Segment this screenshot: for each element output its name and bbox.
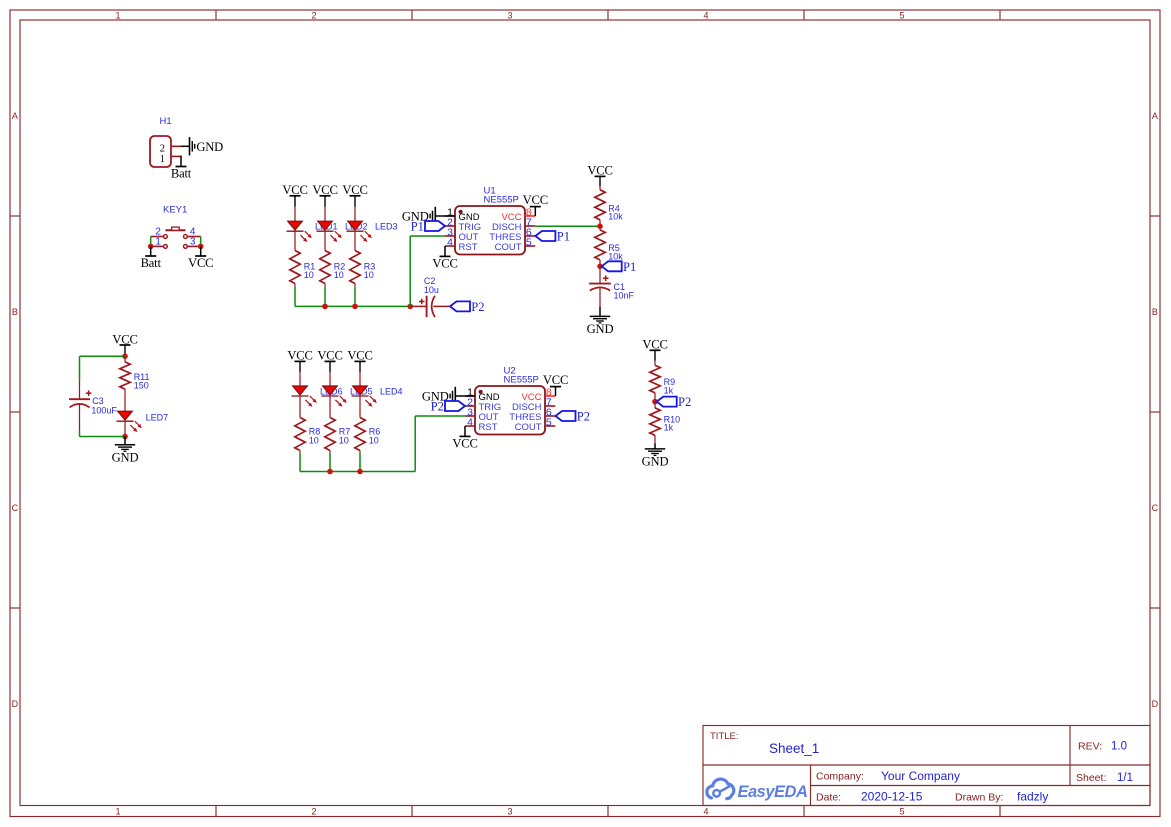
- net label VCC at KEY1: [200, 246, 202, 256]
- svg-text:KEY1: KEY1: [163, 205, 187, 216]
- svg-text:1.0: 1.0: [1111, 741, 1127, 753]
- resistor R2 10: [320, 251, 330, 284]
- ground GND at U1 pin1: [435, 215, 455, 217]
- pin 8 (VCC) of U2: [545, 395, 555, 397]
- wire U1 OUT (pin3): [410, 235, 445, 237]
- svg-text:VCC: VCC: [543, 373, 568, 387]
- wire KEY1 left pins: [150, 237, 152, 247]
- wire VCC to LED3: [354, 207, 356, 221]
- wire R1 to bus: [294, 287, 296, 307]
- wire LED6 to R8: [299, 396, 301, 418]
- pin 7 (DISCH) of U2: [545, 405, 555, 407]
- svg-text:Company:: Company:: [816, 771, 864, 783]
- wire bottom bus group1: [295, 305, 410, 307]
- resistor R11 150: [124, 356, 126, 362]
- svg-text:1: 1: [115, 10, 120, 20]
- pin 4 (RST) of U1: [445, 245, 455, 247]
- port P1 at R5/C1: [602, 261, 622, 271]
- wire OUT down to bus: [409, 236, 411, 306]
- svg-text:3: 3: [507, 10, 512, 20]
- wire R6 to bus: [359, 453, 361, 472]
- resistor R10 1k: [654, 402, 656, 408]
- port P2 at U2 pin6 (THRES): [556, 411, 576, 421]
- svg-text:2020-12-15: 2020-12-15: [861, 790, 923, 804]
- svg-text:10u: 10u: [424, 285, 439, 295]
- pin 1 (GND) of U1: [445, 215, 455, 217]
- svg-text:10nF: 10nF: [614, 291, 635, 301]
- svg-text:TITLE:: TITLE:: [710, 731, 739, 742]
- svg-text:D: D: [1152, 699, 1159, 709]
- svg-text:P2: P2: [431, 400, 444, 414]
- svg-text:Your Company: Your Company: [881, 769, 960, 783]
- junction R4/R5/DISCH: [597, 223, 603, 229]
- svg-text:1k: 1k: [664, 385, 674, 395]
- junction bus/C2/OUT: [407, 304, 413, 310]
- wire VCC junction to C3 branch: [80, 355, 126, 357]
- pin 5 (COUT) of U1: [525, 245, 535, 247]
- svg-text:5: 5: [526, 236, 532, 248]
- junction R7/bus: [327, 469, 333, 475]
- LED LED1: [288, 221, 303, 230]
- wire VCC to LED2: [324, 207, 326, 221]
- svg-text:REV:: REV:: [1078, 741, 1102, 753]
- net label Batt at H1 pin1: [176, 166, 187, 168]
- svg-text:D: D: [12, 699, 19, 709]
- svg-text:A: A: [1152, 111, 1158, 121]
- svg-text:VCC: VCC: [432, 257, 457, 271]
- wire bottom bus group2: [300, 471, 415, 473]
- svg-text:RST: RST: [459, 242, 478, 253]
- ground GND at U2 pin1: [455, 395, 475, 397]
- svg-text:10k: 10k: [608, 212, 623, 222]
- pin 1 (GND) of U2: [465, 395, 475, 397]
- svg-text:A: A: [12, 111, 18, 121]
- svg-text:1/1: 1/1: [1117, 772, 1133, 784]
- svg-text:C: C: [12, 503, 19, 513]
- wire LED3 to R3: [354, 231, 356, 250]
- svg-text:2: 2: [311, 10, 316, 20]
- svg-text:10: 10: [309, 435, 319, 445]
- LED LED5: [323, 386, 338, 395]
- wire KEY1 right pins: [200, 237, 202, 247]
- svg-text:C: C: [1152, 503, 1159, 513]
- power flag VCC at U1 pin4 (RST): [444, 246, 446, 256]
- ground GND below LED7: [124, 437, 126, 445]
- net label Batt at KEY1: [150, 246, 152, 256]
- pin 6 (THRES) of U1: [525, 235, 535, 237]
- junction R6/bus: [357, 469, 363, 475]
- title block: [703, 726, 1150, 806]
- wire R7 to bus: [329, 453, 331, 472]
- svg-text:NE555P: NE555P: [504, 375, 539, 386]
- capacitor C1 10nF: [599, 266, 601, 283]
- resistor R1 10: [290, 251, 300, 284]
- svg-text:1: 1: [115, 807, 120, 817]
- svg-text:P1: P1: [557, 230, 570, 244]
- svg-text:3: 3: [507, 807, 512, 817]
- pin 3 (OUT) of U1: [445, 235, 455, 237]
- wire R2 to bus: [324, 287, 326, 307]
- svg-text:LED4: LED4: [380, 387, 403, 397]
- wire LED4 to R6: [359, 396, 361, 418]
- wire R8 to bus: [299, 453, 301, 472]
- wire bus up to U2 OUT: [414, 416, 416, 472]
- svg-text:GND: GND: [642, 455, 669, 469]
- svg-text:Sheet_1: Sheet_1: [769, 741, 819, 756]
- svg-text:2: 2: [311, 807, 316, 817]
- svg-text:P1: P1: [623, 260, 636, 274]
- LED LED6: [293, 386, 308, 395]
- wire LED5 to R7: [329, 396, 331, 418]
- port P1 at U1 pin2 (TRIG): [425, 221, 445, 231]
- junction R5/C1/P1: [597, 264, 603, 270]
- svg-text:P1: P1: [411, 220, 424, 234]
- svg-text:3: 3: [190, 237, 196, 248]
- svg-text:P2: P2: [577, 410, 590, 424]
- svg-text:LED7: LED7: [146, 412, 169, 422]
- svg-text:4: 4: [447, 236, 453, 248]
- pin 8 (VCC) of U1: [525, 215, 535, 217]
- resistor R4 10k: [599, 186, 601, 190]
- svg-text:NE555P: NE555P: [484, 195, 519, 206]
- junction at KEY1 pin3: [198, 244, 204, 250]
- resistor R5 10k: [599, 226, 601, 230]
- LED LED7: [124, 393, 126, 411]
- ground GND below C1: [599, 307, 601, 316]
- resistor R7 10: [325, 418, 335, 451]
- LED LED3: [348, 221, 363, 230]
- svg-text:GND: GND: [112, 450, 139, 464]
- wire U1 DISCH (pin7) to R4/R5: [535, 225, 600, 227]
- junction LED7/C3/GND: [122, 434, 128, 440]
- svg-text:Batt: Batt: [171, 167, 192, 181]
- svg-text:P2: P2: [678, 395, 691, 409]
- wire R3 to bus: [354, 287, 356, 307]
- resistor R9 1k: [654, 361, 656, 366]
- svg-text:VCC: VCC: [188, 256, 213, 270]
- wire H1 pin1 to Batt flag: [171, 155, 181, 157]
- junction VCC/R11/C3: [122, 353, 128, 359]
- svg-text:10: 10: [304, 270, 314, 280]
- wire VCC to LED4: [359, 372, 361, 386]
- svg-text:Date:: Date:: [816, 792, 841, 804]
- wire LED2 to R2: [324, 231, 326, 250]
- EasyEDA logo: [707, 779, 734, 799]
- svg-text:5: 5: [899, 807, 904, 817]
- svg-text:100uF: 100uF: [91, 405, 117, 415]
- pin 2 (TRIG) of U1: [445, 225, 455, 227]
- pin 4 (RST) of U2: [465, 425, 475, 427]
- port P2 at C2: [450, 301, 470, 311]
- svg-text:10k: 10k: [608, 251, 623, 261]
- svg-text:fadzly: fadzly: [1017, 790, 1048, 804]
- pin 3 (OUT) of U2: [465, 415, 475, 417]
- pin 5 (COUT) of U2: [545, 425, 555, 427]
- op-amp/timer U1 NE555P body: [455, 206, 525, 255]
- wire LED7 junction to C3 branch: [80, 436, 126, 438]
- svg-text:5: 5: [546, 416, 552, 428]
- svg-text:Batt: Batt: [141, 256, 162, 270]
- port P2 at R9/R10: [657, 397, 677, 407]
- svg-text:COUT: COUT: [495, 242, 522, 253]
- capacitor C3 100uF: [79, 356, 81, 380]
- LED LED4: [353, 386, 368, 395]
- svg-text:GND: GND: [196, 140, 223, 154]
- resistor R6 10: [355, 418, 365, 451]
- wire H1 pin2 to GND: [171, 145, 181, 147]
- svg-text:RST: RST: [479, 422, 498, 433]
- resistor R3 10: [350, 251, 360, 284]
- op-amp/timer U2 NE555P body: [475, 386, 545, 435]
- wire LED1 to R1: [294, 231, 296, 250]
- svg-text:VCC: VCC: [452, 437, 477, 451]
- LED LED2: [318, 221, 333, 230]
- ground GND below R10: [654, 443, 656, 449]
- svg-text:VCC: VCC: [523, 193, 548, 207]
- svg-text:EasyEDA: EasyEDA: [738, 783, 808, 801]
- svg-text:1: 1: [160, 154, 165, 165]
- pin 6 (THRES) of U2: [545, 415, 555, 417]
- junction R9/R10/P2: [652, 399, 658, 405]
- svg-text:P2: P2: [471, 300, 484, 314]
- svg-text:4: 4: [703, 807, 708, 817]
- svg-text:5: 5: [899, 10, 904, 20]
- power flag VCC at U2 pin4 (RST): [464, 426, 466, 436]
- svg-text:GND: GND: [587, 322, 614, 336]
- pin 7 (DISCH) of U1: [525, 225, 535, 227]
- svg-text:Drawn By:: Drawn By:: [955, 792, 1003, 804]
- svg-text:1: 1: [155, 237, 161, 248]
- svg-text:150: 150: [134, 380, 149, 390]
- svg-text:10: 10: [334, 270, 344, 280]
- junction R2/bus: [322, 304, 328, 310]
- junction at KEY1 pin1: [148, 244, 154, 250]
- svg-text:1k: 1k: [664, 423, 674, 433]
- svg-text:10: 10: [364, 270, 374, 280]
- svg-text:10: 10: [339, 435, 349, 445]
- junction R3/bus: [352, 304, 358, 310]
- resistor R8 10: [295, 418, 305, 451]
- svg-text:4: 4: [703, 10, 708, 20]
- pin 2 (TRIG) of U2: [465, 405, 475, 407]
- svg-text:4: 4: [467, 416, 473, 428]
- wire VCC to LED6: [299, 372, 301, 386]
- wire U2 OUT (pin3): [415, 415, 465, 417]
- wire VCC to LED1: [294, 207, 296, 221]
- svg-text:B: B: [12, 307, 18, 317]
- svg-text:LED3: LED3: [375, 222, 398, 232]
- svg-text:H1: H1: [160, 116, 172, 127]
- svg-text:COUT: COUT: [515, 422, 542, 433]
- svg-text:10: 10: [369, 435, 379, 445]
- svg-text:Sheet:: Sheet:: [1076, 772, 1106, 784]
- ground GND at H1 pin2: [189, 137, 191, 155]
- wire VCC to LED5: [329, 372, 331, 386]
- svg-text:B: B: [1152, 307, 1158, 317]
- port P2 at U2 pin2 (TRIG): [445, 401, 465, 411]
- port P1 at U1 pin6 (THRES): [535, 231, 555, 241]
